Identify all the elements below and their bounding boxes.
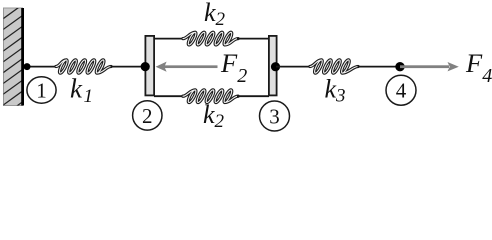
svg-text:k2: k2 — [203, 100, 225, 132]
wire spring k1 to plate at node 2 — [111, 66, 147, 68]
force arrow F4 — [400, 62, 459, 71]
node circle label 1 — [27, 77, 56, 103]
spring k2 top — [183, 32, 238, 45]
svg-text:F4: F4 — [465, 48, 492, 87]
top rail right wire — [237, 38, 269, 40]
rigid plate at node 2 — [145, 36, 154, 96]
svg-text:F2: F2 — [220, 48, 247, 87]
fixed wall support (hatched) — [3, 4, 23, 148]
node dot 4 — [395, 62, 404, 71]
svg-text:4: 4 — [396, 79, 407, 103]
svg-text:1: 1 — [36, 79, 47, 103]
wire plate 3 to spring k3 — [276, 66, 311, 68]
spring k3 — [310, 60, 358, 73]
node dot 2 — [141, 62, 150, 71]
svg-text:k3: k3 — [325, 75, 346, 107]
wire spring k3 to node 4 — [358, 66, 401, 68]
svg-text:k2: k2 — [204, 0, 226, 30]
node circle label 2 — [133, 101, 162, 130]
node dot at wall — [24, 63, 31, 70]
force arrow F2 — [156, 62, 218, 72]
spring k1 — [56, 60, 111, 73]
bottom rail left wire — [154, 95, 184, 97]
node circle label 4 — [386, 75, 416, 105]
bottom rail right wire — [237, 95, 269, 97]
svg-text:3: 3 — [269, 105, 280, 129]
wire wall to spring k1 — [24, 66, 57, 68]
svg-text:2: 2 — [142, 104, 153, 128]
svg-text:k1: k1 — [70, 74, 93, 108]
spring k2 bottom — [183, 90, 238, 103]
rigid plate at node 3 — [269, 36, 277, 96]
node dot 3 — [271, 62, 280, 71]
top rail left wire — [154, 38, 184, 40]
node circle label 3 — [260, 101, 290, 131]
